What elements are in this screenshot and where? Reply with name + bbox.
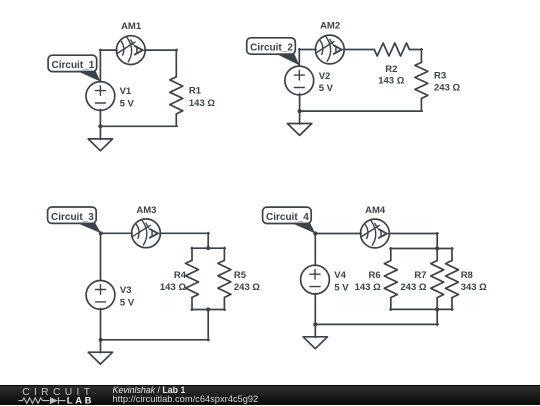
voltage source V4 — [301, 265, 330, 294]
wire R7 top lead — [436, 248, 438, 261]
svg-text:Circuit_3: Circuit_3 — [51, 212, 94, 223]
wire R5 bottom lead — [223, 297, 225, 310]
wire bus down to rail c4 — [436, 309, 438, 325]
junction node c2 bottom — [298, 109, 302, 113]
wire R4 bottom lead — [191, 297, 193, 310]
voltage source V1 — [86, 82, 115, 111]
wire R6 top lead — [390, 248, 392, 261]
junction node c1 bottom — [98, 124, 102, 128]
footer bar — [0, 385, 540, 405]
svg-text:LAB: LAB — [67, 395, 94, 406]
wire R1 bottom lead — [175, 114, 177, 126]
wire R6 bottom lead — [390, 298, 392, 311]
ground — [287, 124, 311, 136]
wire V3 bottom to ground — [100, 308, 102, 353]
svg-text:V1: V1 — [120, 86, 132, 97]
resistor R4 — [186, 260, 199, 297]
svg-text:AM3: AM3 — [136, 205, 156, 216]
svg-text:243 Ω: 243 Ω — [234, 282, 260, 293]
junction node c3 parallel top — [206, 246, 210, 250]
wire R3 top lead — [420, 49, 422, 63]
wire AM4 to corner — [389, 233, 438, 235]
wire V2 top to node c2 — [298, 49, 300, 66]
svg-text:V3: V3 — [120, 285, 132, 296]
wire AM2 to R2 — [344, 49, 375, 51]
svg-text:V4: V4 — [334, 270, 346, 281]
wire AM1 to R1 top — [145, 49, 178, 51]
wire corner down to top bus c3 — [207, 233, 209, 250]
wire R5 top lead — [223, 247, 225, 260]
wire V3 top to node — [100, 233, 102, 281]
ground — [88, 139, 112, 151]
svg-text:143 Ω: 143 Ω — [160, 282, 186, 293]
svg-text:AM2: AM2 — [320, 20, 340, 31]
wire bottom bus c3 — [191, 309, 225, 311]
wire R3 bottom lead — [420, 98, 422, 111]
voltage source V2 — [285, 66, 314, 95]
wire V4 top to node — [314, 233, 316, 266]
wire top-left vertical (V1 top to node) — [99, 49, 101, 81]
svg-text:143 Ω: 143 Ω — [189, 98, 215, 109]
wire R1 top lead — [175, 49, 177, 77]
node Circuit_4 label — [263, 207, 316, 233]
svg-text:R7: R7 — [414, 270, 426, 281]
wire node to AM3 — [100, 232, 132, 234]
resistor R6 — [384, 261, 397, 298]
svg-text:343 Ω: 343 Ω — [461, 282, 487, 293]
wire bottom rail c3 — [100, 339, 209, 341]
ground — [303, 337, 327, 349]
wire R8 top lead — [451, 248, 453, 261]
wire top bus c3 — [191, 247, 225, 249]
wire bottom bus c4 — [390, 308, 453, 310]
junction node c3 parallel bottom — [206, 307, 210, 311]
ammeter AM2 — [315, 35, 344, 64]
junction node c4 parallel bottom — [435, 307, 439, 311]
node Circuit_1 label — [48, 55, 100, 81]
svg-text:243 Ω: 243 Ω — [434, 83, 460, 94]
voltage source V3 — [86, 281, 115, 310]
svg-text:143 Ω: 143 Ω — [378, 76, 404, 87]
wire bottom rail c1 — [100, 125, 177, 127]
resistor R3 — [415, 62, 428, 98]
wire bottom rail c4 — [315, 323, 438, 325]
svg-text:5 V: 5 V — [120, 298, 135, 309]
svg-text:AM4: AM4 — [365, 205, 386, 216]
wire top horizontal V2-AM2 — [299, 49, 316, 51]
svg-text:R6: R6 — [369, 270, 381, 281]
resistor R8 — [446, 261, 459, 298]
svg-text:R5: R5 — [234, 270, 247, 281]
resistor R5 — [218, 260, 231, 297]
wire corner down to top bus c4 — [436, 233, 438, 250]
svg-text:5 V: 5 V — [334, 282, 349, 293]
svg-text:R4: R4 — [174, 270, 187, 281]
svg-text:AM1: AM1 — [121, 21, 142, 32]
resistor R1 — [170, 77, 183, 114]
svg-text:243 Ω: 243 Ω — [400, 282, 426, 293]
junction node c4 rail — [313, 322, 317, 326]
wire bottom rail c2 — [300, 110, 423, 112]
wire R8 bottom lead — [451, 298, 453, 311]
junction node c4 top-left — [313, 231, 317, 235]
wire V2 bottom to ground — [299, 94, 301, 124]
svg-text:Circuit_1: Circuit_1 — [52, 60, 95, 71]
svg-text:Circuit_4: Circuit_4 — [266, 212, 309, 223]
wire top horizontal V1-AM1 — [100, 49, 117, 51]
wire bus down to rail c3 — [207, 310, 209, 341]
svg-text:5 V: 5 V — [120, 98, 135, 109]
svg-text:R3: R3 — [434, 70, 446, 81]
svg-text:R2: R2 — [385, 64, 397, 75]
resistor R7 — [431, 261, 444, 298]
svg-text:Circuit_2: Circuit_2 — [250, 43, 293, 54]
ground — [88, 352, 112, 364]
ammeter AM1 — [116, 36, 145, 65]
svg-text:R1: R1 — [189, 86, 202, 97]
wire V4 bottom to ground — [314, 293, 316, 337]
junction node c3 rail — [99, 338, 103, 342]
wire R7 bottom lead — [436, 298, 438, 311]
node Circuit_2 label — [247, 38, 300, 65]
svg-text:5 V: 5 V — [319, 83, 334, 94]
junction node c4 parallel top — [435, 246, 439, 250]
wire R2 to corner — [409, 49, 422, 51]
resistor R2 — [374, 43, 409, 56]
wire node to AM4 — [315, 233, 362, 235]
svg-text:R8: R8 — [461, 270, 473, 281]
wire R4 top lead — [191, 247, 193, 260]
wire AM3 to corner — [160, 232, 209, 234]
CircuitLab logo — [0, 386, 110, 406]
svg-text:143 Ω: 143 Ω — [355, 282, 381, 293]
junction node c3 top-left — [99, 231, 103, 235]
wire top bus c4 — [390, 248, 453, 250]
ammeter AM4 — [361, 219, 390, 248]
svg-text:V2: V2 — [319, 71, 331, 82]
wire V1 bottom to ground — [99, 109, 101, 139]
ammeter AM3 — [132, 219, 161, 248]
node Circuit_3 label — [48, 207, 102, 233]
